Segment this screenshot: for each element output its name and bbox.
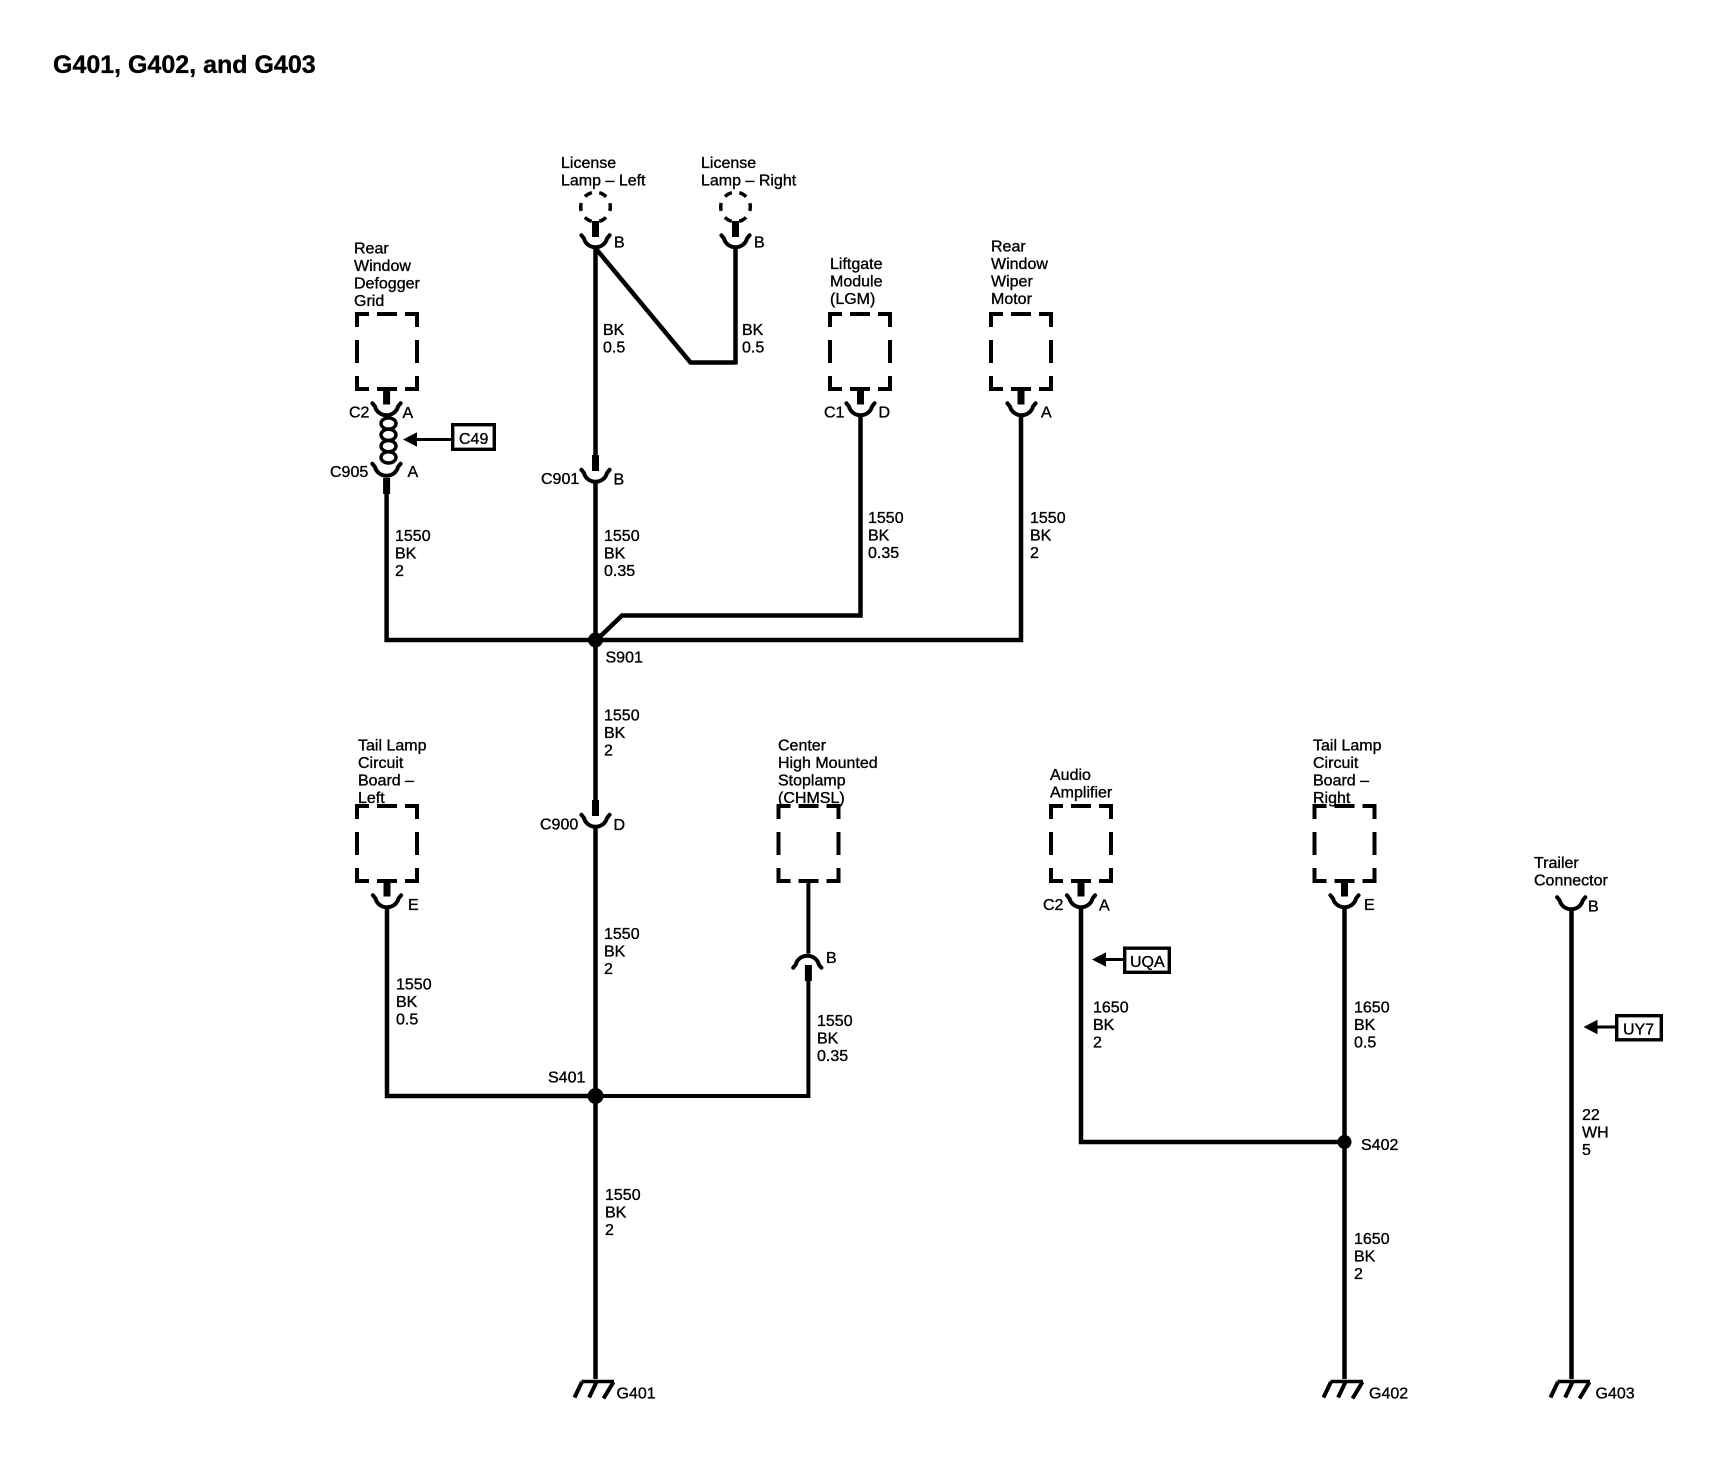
svg-text:Rear: Rear <box>991 239 1026 256</box>
option box UY7 <box>1617 1016 1662 1040</box>
wire S402 down to G402 <box>1342 1142 1347 1379</box>
component box Liftgate Module (dashed) <box>830 314 890 389</box>
svg-text:C901: C901 <box>541 471 579 488</box>
svg-text:BK: BK <box>604 546 626 563</box>
connector arc, lamp right, pin B <box>721 235 749 247</box>
connector arc C905 pin A <box>372 464 400 476</box>
svg-text:S401: S401 <box>548 1070 585 1087</box>
svg-text:B: B <box>826 950 837 967</box>
svg-text:S901: S901 <box>606 650 643 667</box>
svg-text:BK: BK <box>604 944 626 961</box>
svg-text:BK: BK <box>1354 1249 1376 1266</box>
svg-text:0.5: 0.5 <box>396 1012 418 1029</box>
svg-text:BK: BK <box>742 322 764 339</box>
connector arc C2 pin A (defogger) <box>372 403 400 415</box>
svg-text:1550: 1550 <box>604 528 640 545</box>
svg-text:BK: BK <box>868 528 890 545</box>
svg-text:22: 22 <box>1582 1107 1600 1124</box>
svg-text:G401, G402, and G403: G401, G402, and G403 <box>53 51 316 79</box>
pin stub audio amp C2 <box>1078 881 1085 897</box>
component box CHMSL (dashed) <box>779 806 839 881</box>
svg-text:D: D <box>879 405 891 422</box>
svg-text:BK: BK <box>604 725 626 742</box>
wire defogger C905 down to S901 row <box>387 493 596 640</box>
svg-text:C2: C2 <box>349 405 370 422</box>
wire trunk S901 down to C900 <box>593 640 598 800</box>
svg-text:License: License <box>701 155 756 172</box>
svg-text:BK: BK <box>1030 528 1052 545</box>
svg-text:5: 5 <box>1582 1142 1591 1159</box>
svg-text:C1: C1 <box>824 405 845 422</box>
wire diagonal from lamp-left B to junction with lamp-right wire <box>597 250 736 363</box>
svg-text:Liftgate: Liftgate <box>830 256 883 273</box>
svg-text:BK: BK <box>1354 1017 1376 1034</box>
svg-text:0.35: 0.35 <box>817 1048 848 1065</box>
svg-text:Window: Window <box>991 256 1048 273</box>
svg-text:Trailer: Trailer <box>1534 855 1579 872</box>
pin stub License Lamp - Right <box>732 221 739 237</box>
wire LGM down, left, diagonal into S901 <box>596 417 861 641</box>
wire from lamp-left B down to C901 <box>593 249 598 455</box>
svg-text:C2: C2 <box>1043 897 1064 914</box>
svg-text:1550: 1550 <box>604 708 640 725</box>
component box Rear Window Defogger Grid (dashed) <box>357 314 417 389</box>
ground G402 <box>1324 1382 1364 1399</box>
svg-text:0.5: 0.5 <box>603 340 625 357</box>
connector arc C2 pin A (audio amp) <box>1067 895 1095 907</box>
svg-text:Amplifier: Amplifier <box>1050 785 1113 802</box>
svg-text:G403: G403 <box>1596 1386 1635 1403</box>
pin stub below C905 <box>383 478 390 494</box>
wire C901 down to S901 <box>593 484 598 649</box>
component box Rear Window Wiper Motor (dashed) <box>991 314 1051 389</box>
svg-text:Grid: Grid <box>354 293 384 310</box>
lamp License Lamp - Left (dashed circle) <box>581 192 611 222</box>
svg-text:BK: BK <box>396 994 418 1011</box>
svg-text:Stoplamp: Stoplamp <box>778 773 846 790</box>
svg-text:UQA: UQA <box>1130 954 1165 971</box>
svg-text:Module: Module <box>830 274 883 291</box>
svg-text:C900: C900 <box>540 817 578 834</box>
svg-text:B: B <box>1588 899 1599 916</box>
svg-text:0.35: 0.35 <box>604 563 635 580</box>
svg-text:Lamp – Left: Lamp – Left <box>561 173 646 190</box>
option arrow to UY7 <box>1584 1020 1598 1035</box>
component box Tail Lamp Circuit Board Left (dashed) <box>357 806 417 881</box>
svg-text:G401: G401 <box>617 1386 656 1403</box>
svg-text:B: B <box>754 235 765 252</box>
svg-text:1550: 1550 <box>1030 510 1066 527</box>
connector arc pin B (CHMSL, flipped) <box>793 956 821 968</box>
ground G401 <box>575 1382 615 1399</box>
svg-text:Rear: Rear <box>354 241 389 258</box>
svg-text:1550: 1550 <box>396 977 432 994</box>
svg-text:Board –: Board – <box>358 773 414 790</box>
pin stub License Lamp - Left <box>592 221 599 237</box>
lamp License Lamp - Right (dashed circle) <box>721 192 751 222</box>
connector arc, lamp left, pin B <box>581 235 609 247</box>
connector arc C901 pin B <box>581 470 609 482</box>
wire trunk C900 down to S401 <box>593 829 598 1097</box>
connector arc pin E (tail lamp right) <box>1330 895 1358 907</box>
svg-text:D: D <box>614 817 626 834</box>
svg-text:2: 2 <box>604 961 613 978</box>
svg-text:B: B <box>614 235 625 252</box>
svg-text:E: E <box>408 897 419 914</box>
svg-text:0.5: 0.5 <box>1354 1035 1376 1052</box>
ground G403 <box>1551 1382 1591 1399</box>
svg-text:UY7: UY7 <box>1623 1022 1654 1039</box>
svg-text:Circuit: Circuit <box>1313 755 1359 772</box>
svg-text:1550: 1550 <box>395 528 431 545</box>
svg-text:A: A <box>1099 898 1110 915</box>
splice node S901 <box>588 633 603 648</box>
svg-text:E: E <box>1364 897 1375 914</box>
pin stub LGM C1 <box>857 389 864 405</box>
pin stub tail lamp left <box>384 881 391 897</box>
svg-text:1550: 1550 <box>604 926 640 943</box>
svg-text:Lamp – Right: Lamp – Right <box>701 173 797 190</box>
wire audio amp down to S402 row <box>1081 909 1345 1142</box>
svg-text:Audio: Audio <box>1050 767 1091 784</box>
wire CHMSL from box down to connector B <box>806 881 810 954</box>
pin stub above C901 <box>592 455 599 471</box>
option box UQA <box>1125 948 1170 972</box>
svg-text:Tail Lamp: Tail Lamp <box>358 738 427 755</box>
svg-text:Defogger: Defogger <box>354 276 420 293</box>
connector arc pin B (trailer connector) <box>1557 897 1585 909</box>
svg-text:2: 2 <box>605 1222 614 1239</box>
pin stub defogger C2 <box>383 389 390 405</box>
svg-text:Window: Window <box>354 258 411 275</box>
option arrow to C49 <box>403 432 417 447</box>
svg-text:BK: BK <box>817 1031 839 1048</box>
component box Audio Amplifier (dashed) <box>1051 806 1111 881</box>
svg-text:C905: C905 <box>330 464 368 481</box>
wire from lamp-right B down <box>733 249 738 365</box>
svg-text:2: 2 <box>395 563 404 580</box>
option arrow to UQA <box>1092 952 1106 967</box>
svg-text:1550: 1550 <box>868 510 904 527</box>
svg-text:0.35: 0.35 <box>868 545 899 562</box>
svg-text:WH: WH <box>1582 1125 1609 1142</box>
connector arc C1 pin D (LGM) <box>846 403 874 415</box>
svg-text:A: A <box>1041 405 1052 422</box>
connector arc C900 pin D <box>581 815 609 827</box>
svg-text:B: B <box>614 472 625 489</box>
wire CHMSL connector down to S401 row <box>596 981 809 1096</box>
svg-text:Circuit: Circuit <box>358 755 404 772</box>
wire tail lamp right down to S402 <box>1342 909 1347 1142</box>
svg-text:High Mounted: High Mounted <box>778 755 878 772</box>
svg-text:1550: 1550 <box>605 1187 641 1204</box>
svg-text:C49: C49 <box>459 431 488 448</box>
svg-text:2: 2 <box>1354 1266 1363 1283</box>
svg-text:Connector: Connector <box>1534 873 1608 890</box>
svg-text:2: 2 <box>1030 545 1039 562</box>
wire tail lamp left down to S401 row <box>387 909 596 1096</box>
svg-text:1550: 1550 <box>817 1013 853 1030</box>
pin stub wiper motor <box>1018 389 1025 405</box>
svg-text:A: A <box>408 464 419 481</box>
splice node S401 <box>588 1088 604 1104</box>
wire trunk S401 down to G401 <box>593 1096 598 1379</box>
svg-text:2: 2 <box>1093 1035 1102 1052</box>
svg-text:BK: BK <box>605 1205 627 1222</box>
svg-text:1650: 1650 <box>1354 1231 1390 1248</box>
connector arc pin E (tail lamp left) <box>373 895 401 907</box>
splice node S402 <box>1338 1135 1352 1149</box>
svg-text:BK: BK <box>1093 1017 1115 1034</box>
wire trailer connector down to G403 <box>1569 911 1574 1379</box>
svg-text:License: License <box>561 155 616 172</box>
svg-text:1650: 1650 <box>1354 1000 1390 1017</box>
svg-text:BK: BK <box>603 322 625 339</box>
svg-text:Wiper: Wiper <box>991 274 1033 291</box>
svg-text:Motor: Motor <box>991 291 1033 308</box>
svg-text:0.5: 0.5 <box>742 340 764 357</box>
svg-text:G402: G402 <box>1369 1386 1408 1403</box>
pin stub below CHMSL B <box>805 965 812 981</box>
component box Tail Lamp Circuit Board Right (dashed) <box>1315 806 1375 881</box>
svg-text:Center: Center <box>778 738 827 755</box>
svg-text:1650: 1650 <box>1093 1000 1129 1017</box>
wire wiper motor down to S901 row <box>596 417 1022 640</box>
svg-text:Tail Lamp: Tail Lamp <box>1313 738 1382 755</box>
svg-text:2: 2 <box>604 743 613 760</box>
svg-text:BK: BK <box>395 546 417 563</box>
pin stub above C900 <box>592 800 599 816</box>
option box C49 <box>453 425 495 450</box>
svg-text:(LGM): (LGM) <box>830 291 875 308</box>
svg-text:Board –: Board – <box>1313 773 1369 790</box>
pin stub tail lamp right <box>1341 881 1348 897</box>
connector arc pin A (wiper motor) <box>1007 403 1035 415</box>
svg-text:S402: S402 <box>1361 1137 1398 1154</box>
defogger grid element coil <box>381 418 396 463</box>
svg-text:A: A <box>403 405 414 422</box>
